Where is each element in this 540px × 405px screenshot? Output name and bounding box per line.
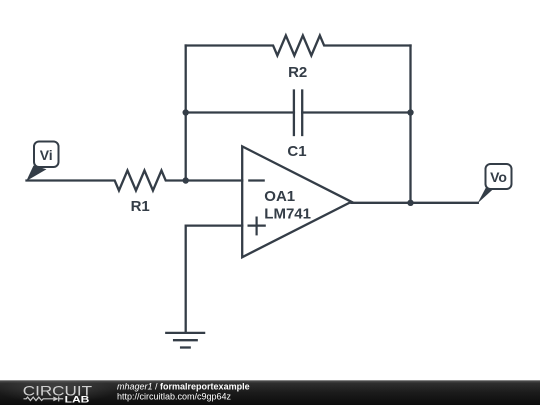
node junction dot right C1 bbox=[407, 109, 413, 115]
op-amp OA1 bbox=[242, 146, 351, 257]
node Vi flag bbox=[26, 142, 58, 182]
svg-text:mhager1 / formalreportexample: mhager1 / formalreportexample bbox=[117, 381, 250, 391]
svg-text:OA1: OA1 bbox=[264, 188, 295, 205]
wire right feedback vertical bbox=[409, 46, 411, 203]
node Vo flag bbox=[478, 164, 512, 203]
wire C1 right bbox=[302, 111, 410, 113]
wire top feedback with resistor R2 bbox=[186, 36, 411, 56]
svg-text:R1: R1 bbox=[131, 198, 150, 215]
op-amp minus pin symbol bbox=[249, 179, 263, 181]
logo schematic glyph bbox=[24, 396, 64, 401]
svg-text:R2: R2 bbox=[288, 64, 307, 81]
node junction dot left C1 bbox=[183, 109, 189, 115]
wire input with resistor R1 bbox=[27, 171, 243, 191]
node junction dot output bbox=[407, 200, 413, 206]
svg-text:LAB: LAB bbox=[65, 395, 90, 405]
wire non-inverting input bbox=[186, 226, 243, 333]
svg-text:C1: C1 bbox=[287, 143, 306, 160]
wire left feedback vertical bbox=[185, 46, 187, 181]
capacitor C1 bbox=[294, 91, 302, 136]
wire output bbox=[351, 202, 477, 204]
svg-text:Vo: Vo bbox=[490, 169, 507, 185]
wire C1 left bbox=[186, 111, 294, 113]
node junction dot inverting input bbox=[183, 177, 189, 183]
svg-text:LM741: LM741 bbox=[264, 205, 311, 222]
ground bbox=[166, 333, 204, 348]
op-amp plus pin symbol bbox=[249, 218, 265, 235]
svg-text:http://circuitlab.com/c9gp64z: http://circuitlab.com/c9gp64z bbox=[117, 391, 232, 401]
svg-text:Vi: Vi bbox=[40, 147, 53, 163]
